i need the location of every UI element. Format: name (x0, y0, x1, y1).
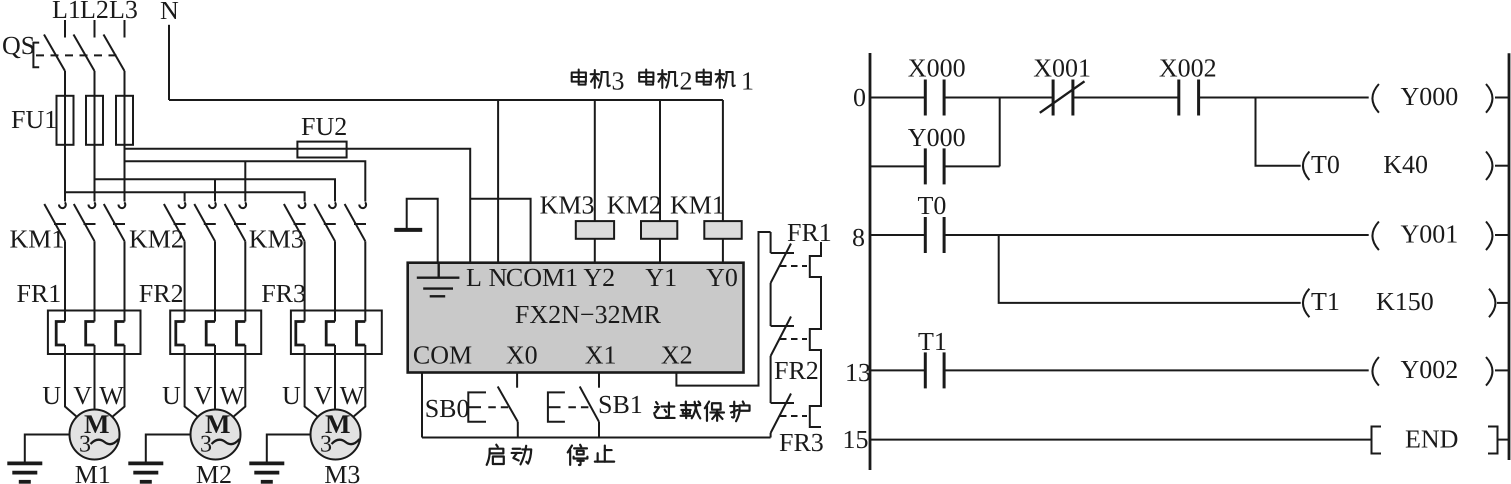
wire N bus drop to KM1 coil (722, 100, 724, 221)
svg-text:KM2: KM2 (607, 191, 662, 220)
LADDER (843, 53, 1510, 470)
svg-text:Y000: Y000 (908, 123, 966, 152)
svg-text:L1: L1 (52, 0, 81, 24)
svg-text:3: 3 (612, 67, 625, 96)
wire N vertical (168, 25, 170, 100)
coil Y001 (1372, 220, 1509, 251)
wire group2 phase A to heater (184, 241, 186, 321)
label 电机1 (697, 70, 735, 89)
svg-text:FR1: FR1 (17, 279, 62, 308)
rung 8 wire (870, 234, 1369, 236)
wire phase B to fuse (94, 71, 96, 202)
pushbutton SB1 actuator (548, 392, 589, 421)
wire phase C drop to KM2 (244, 161, 246, 201)
svg-text:KM1: KM1 (670, 191, 725, 220)
svg-text:X1: X1 (585, 341, 617, 370)
svg-text:FU2: FU2 (301, 112, 347, 141)
contact X000 (925, 80, 944, 116)
svg-text:KM1: KM1 (10, 225, 65, 254)
PLC SECTION (394, 67, 832, 466)
svg-text:L: L (466, 263, 482, 292)
relay FR2 heater 3 (237, 322, 246, 346)
relay FR3 box (291, 311, 382, 355)
contactor KM2 pole 2 (194, 202, 215, 241)
junction after X000 branch (999, 98, 1001, 167)
wire motor3 U lead (305, 345, 318, 417)
wire motor2 V lead (214, 345, 216, 410)
svg-text:FR2: FR2 (774, 356, 819, 385)
contact T0 (925, 217, 944, 253)
wire motor3 to ground (267, 435, 311, 462)
contactor KM2 pole 3 (225, 202, 246, 241)
svg-text:COM1: COM1 (506, 263, 578, 292)
svg-text:13: 13 (845, 358, 871, 387)
contactor KM3 linkage dashes (294, 223, 367, 225)
FR chain contact 1 (771, 232, 807, 283)
FR chain contact 3 (771, 356, 807, 438)
svg-text:T1: T1 (1311, 287, 1340, 316)
svg-text:X0: X0 (506, 341, 538, 370)
wire phase A drop to KM2 (184, 192, 186, 201)
wire bottom common (422, 437, 771, 439)
ground motor2 (128, 463, 163, 481)
wire phase A distribution (65, 192, 305, 201)
switch QS linkage dashed line (36, 54, 120, 56)
wire END to rail (1498, 439, 1510, 441)
pushbutton SB0 blade (498, 387, 518, 422)
fuse FU1 element 1 (57, 96, 74, 145)
svg-text:QS: QS (2, 31, 35, 60)
wire phase A to fuse (64, 71, 66, 202)
svg-text:KM3: KM3 (249, 225, 304, 254)
svg-text:FU1: FU1 (11, 105, 57, 134)
svg-text:KM2: KM2 (129, 225, 184, 254)
svg-text:T0: T0 (918, 191, 947, 220)
wire KM2 coil to Y1 (659, 239, 661, 263)
wire group3 phase A to heater (304, 241, 306, 321)
svg-text:W: W (220, 381, 245, 410)
wire X1 stub (598, 373, 600, 388)
pushbutton SB1 blade (580, 387, 599, 422)
label 电机3 (572, 70, 610, 89)
wire motor2 to ground (146, 435, 191, 462)
parallel branch Y000 wire (870, 165, 1000, 167)
contactor KM1 linkage dashes (54, 223, 126, 225)
wire L to COM1 jumper (470, 199, 530, 263)
svg-text:SB0: SB0 (425, 394, 470, 423)
svg-text:X001: X001 (1033, 53, 1091, 82)
FR thermal stirrup chain (810, 242, 821, 427)
contactor KM2 linkage dashes (174, 223, 247, 225)
svg-text:KM3: KM3 (540, 191, 595, 220)
wire motor2 U lead (185, 345, 198, 417)
svg-text:FR3: FR3 (261, 279, 306, 308)
coil Y002 (1372, 355, 1509, 386)
wire group3 phase C to heater (364, 241, 366, 321)
motor M3 (311, 409, 361, 460)
relay FR1 heater 3 (116, 322, 125, 346)
label guozai baohu 过载保护 (654, 401, 749, 421)
wire L1 stub (64, 20, 66, 38)
svg-text:U: U (282, 381, 301, 410)
contactor KM1 pole 1 (44, 202, 65, 241)
wire N bus drop to KM3 coil (594, 100, 596, 221)
svg-text:W: W (99, 381, 124, 410)
wire L2 stub (94, 20, 96, 38)
svg-text:FR3: FR3 (779, 428, 824, 457)
svg-text:X000: X000 (908, 53, 966, 82)
contactor KM1 pole 3 (104, 202, 125, 241)
svg-text:2: 2 (680, 67, 693, 96)
wire motor1 W lead (112, 345, 124, 417)
wire motor3 W lead (353, 345, 365, 417)
wire motor2 W lead (233, 345, 245, 417)
switch QS blade 2 (74, 35, 95, 72)
contact X002 (1179, 80, 1199, 116)
wire group2 phase C to heater (244, 241, 246, 321)
svg-text:15: 15 (843, 425, 869, 454)
wire X2 route to FR chain (676, 232, 770, 386)
switch QS blade 3 (104, 35, 125, 72)
wire motor1 to ground (25, 435, 70, 462)
svg-text:FX2N−32MR: FX2N−32MR (515, 300, 662, 329)
svg-text:X002: X002 (1159, 53, 1217, 82)
svg-text:Y0: Y0 (706, 263, 738, 292)
svg-text:K40: K40 (1383, 150, 1428, 179)
relay FR1 heater 1 (56, 322, 65, 346)
svg-text:Y000: Y000 (1401, 82, 1459, 111)
relay FR1 heater 2 (86, 322, 95, 346)
contact T1 (925, 352, 944, 388)
motor M2 (191, 409, 241, 460)
contact X001 NC (1040, 80, 1085, 116)
svg-text:X2: X2 (661, 341, 693, 370)
svg-text:1: 1 (741, 67, 754, 96)
MAIN CIRCUIT (2, 0, 723, 484)
coil T1 K150 (1303, 287, 1510, 317)
fuse FU1 element 2 (86, 96, 103, 145)
END bracket left (1372, 427, 1382, 454)
svg-text:Y1: Y1 (645, 263, 677, 292)
ladder right rail (1508, 53, 1511, 460)
wire group3 phase B to heater (334, 241, 336, 321)
coil Y000 (1372, 82, 1509, 113)
relay FR3 heater 3 (357, 322, 366, 346)
wire earth to PLC ground terminal (407, 199, 438, 263)
switch QS linkage bracket (33, 43, 39, 68)
label 电机2 (639, 70, 677, 89)
wire phase B distribution (95, 179, 336, 201)
wire motor1 U lead (65, 345, 77, 417)
relay FR2 heater 2 (206, 322, 215, 346)
contactor KM1 pole 2 (74, 202, 95, 241)
wire N bus drop to KM2 coil (659, 100, 661, 221)
coil KM3 (576, 221, 614, 239)
wire phase B drop to KM2 (214, 179, 216, 201)
PLC internal ground symbol (417, 263, 460, 297)
contactor KM3 pole 3 (345, 202, 366, 241)
svg-text:T1: T1 (918, 327, 947, 356)
wire motor3 V lead (334, 345, 336, 410)
coil KM1 (704, 221, 741, 239)
wire COM down (421, 373, 423, 438)
svg-text:Y001: Y001 (1401, 220, 1459, 249)
wire SB1 to bottom (598, 422, 600, 438)
wire group1 phase C to heater (124, 241, 126, 321)
svg-text:M3: M3 (324, 460, 360, 484)
wire KM3 coil to Y2 (594, 239, 596, 263)
svg-text:0: 0 (853, 83, 866, 112)
rung 13 wire (870, 369, 1369, 371)
svg-text:W: W (340, 381, 365, 410)
svg-text:M2: M2 (196, 460, 232, 484)
fuse FU1 element 3 (116, 96, 133, 145)
relay FR1 box (48, 311, 141, 355)
branch to T0 timer (1256, 98, 1301, 166)
relay FR3 heater 1 (296, 322, 305, 346)
rung 0 wire (870, 97, 1369, 99)
wire group1 phase A to heater (64, 241, 66, 321)
svg-text:T0: T0 (1311, 150, 1340, 179)
contactor KM3 pole 2 (314, 202, 335, 241)
END bracket right (1488, 427, 1498, 454)
svg-text:K150: K150 (1376, 287, 1434, 316)
svg-text:U: U (42, 381, 61, 410)
contact Y000 (925, 148, 944, 184)
label tingzhi 停止 (568, 445, 614, 465)
svg-text:FR2: FR2 (139, 279, 184, 308)
svg-text:V: V (314, 381, 333, 410)
coil T0 K40 (1303, 150, 1510, 180)
ground motor3 (249, 463, 284, 481)
contactor KM2 pole 1 (164, 202, 185, 241)
wire L3 stub (124, 20, 126, 38)
svg-text:N: N (489, 263, 508, 292)
wire phase C distribution (125, 161, 366, 201)
wire motor1 V lead (94, 345, 96, 410)
svg-text:END: END (1405, 425, 1458, 454)
svg-text:FR1: FR1 (787, 218, 832, 247)
branch to T1 timer (999, 235, 1301, 303)
svg-text:8: 8 (852, 223, 865, 252)
contactor KM3 pole 1 (284, 202, 305, 241)
wire KM1 coil to Y0 (722, 239, 724, 263)
label qidong 启动 (487, 445, 532, 465)
svg-text:V: V (73, 381, 92, 410)
svg-text:N: N (160, 0, 179, 25)
wire N horizontal bus (169, 99, 723, 101)
relay FR3 heater 2 (326, 322, 335, 346)
switch QS blade 1 (44, 35, 65, 72)
relay FR2 box (170, 311, 261, 355)
svg-text:V: V (194, 381, 213, 410)
wire N bus drop to PLC N (497, 100, 499, 263)
rung 15 wire (870, 439, 1372, 441)
wire group2 phase B to heater (214, 241, 216, 321)
relay FR2 heater 1 (176, 322, 185, 346)
ladder left rail (869, 53, 872, 470)
svg-text:Y002: Y002 (1401, 355, 1459, 384)
wire X0 stub (516, 373, 518, 388)
coil KM2 (641, 221, 677, 239)
wire phase C to fuse (124, 71, 126, 202)
fuse FU2 element (297, 142, 346, 158)
FR chain contact 2 (771, 283, 807, 356)
svg-text:Y2: Y2 (583, 263, 615, 292)
wire group1 phase B to heater (94, 241, 96, 321)
svg-text:U: U (162, 381, 181, 410)
external earth bar (394, 228, 422, 232)
svg-text:SB1: SB1 (598, 390, 643, 419)
PLC box FX2N-32MR (408, 263, 744, 373)
motor M1 (70, 409, 120, 460)
svg-text:L3: L3 (109, 0, 138, 24)
ground motor1 (7, 463, 42, 481)
svg-text:M1: M1 (75, 460, 111, 484)
wire SB0 to bottom (517, 422, 519, 438)
svg-text:COM: COM (413, 341, 472, 370)
wire L3 to FU2 to PLC L (125, 149, 471, 263)
pushbutton SB0 actuator (468, 392, 508, 421)
